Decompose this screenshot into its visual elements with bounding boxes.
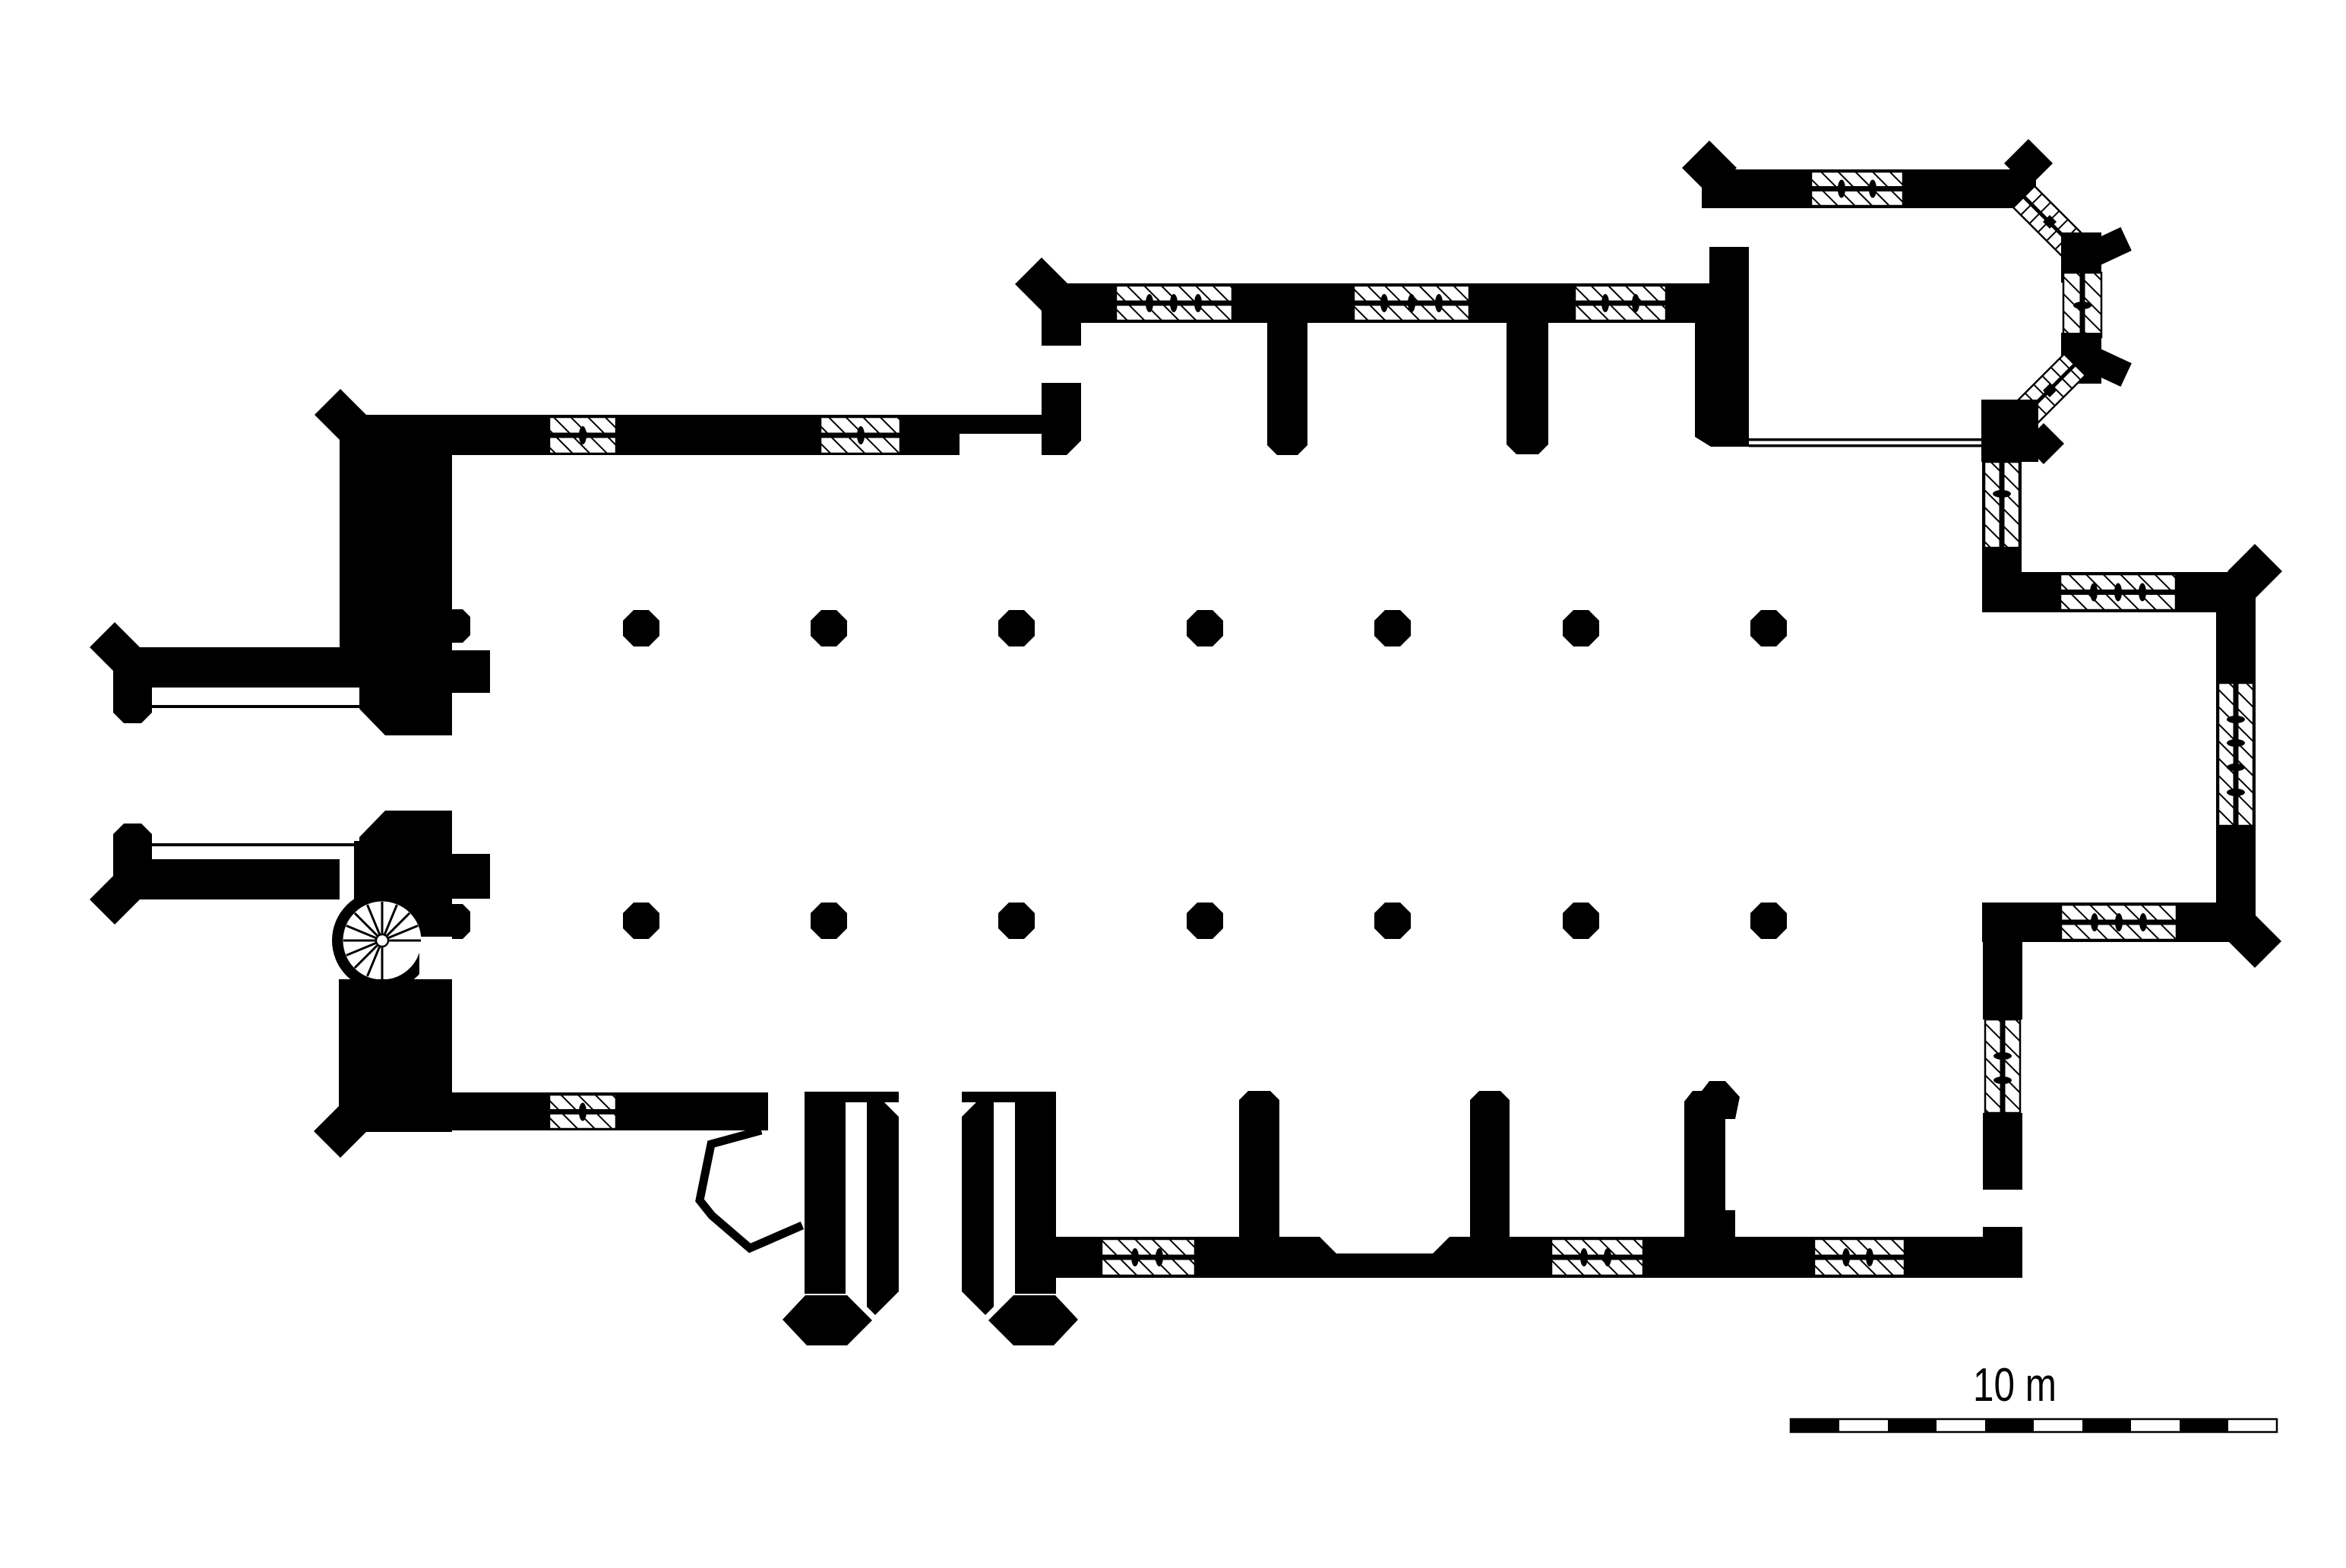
apse north buttress — [2004, 139, 2053, 188]
apse east-north buttress — [2086, 227, 2132, 267]
south chapel east window — [1985, 1020, 2020, 1113]
retrochoir south-east buttress — [2228, 915, 2281, 968]
nave south arcade pier 5 — [1374, 903, 1411, 939]
stair turret wall — [332, 890, 432, 991]
retrochoir east window — [2218, 683, 2253, 826]
south chapel east wall upper — [1983, 903, 2022, 1020]
chapel arch south jamb — [1042, 383, 1081, 455]
sanctuary north window — [1811, 172, 1903, 206]
west tower south block — [354, 841, 452, 904]
south chapel window 3 — [1814, 1239, 1905, 1276]
nave south arcade pier 2 — [811, 903, 847, 939]
south chapel east wall lower — [1983, 1113, 2022, 1190]
retrochoir north-east buttress — [2227, 544, 2282, 599]
nave south arcade pier 6 — [1563, 903, 1599, 939]
stair newel — [376, 934, 388, 947]
apse south block — [1981, 400, 2038, 462]
south porch east jamb lintel — [962, 1092, 1056, 1102]
nave south arcade pier 3 — [998, 903, 1035, 939]
stair treads — [343, 902, 421, 979]
north chapel window 2 — [1354, 286, 1469, 321]
nave north arcade pier 4 — [1187, 610, 1223, 646]
nave north arcade pier 6 — [1563, 610, 1599, 646]
north-west porch west turret — [113, 650, 152, 723]
nave south arcade pier 4 — [1187, 903, 1223, 939]
window in chancel east wall — [1984, 462, 2019, 548]
south nave wall — [452, 1092, 768, 1130]
north chapel north wall — [1047, 283, 1709, 323]
nave north arcade pier 7 — [1750, 610, 1787, 646]
tower west door south jamb — [359, 811, 452, 841]
chancel step line 1 — [1749, 438, 1981, 441]
north arcade respond — [452, 609, 470, 643]
window 2 in nave north wall — [820, 417, 900, 454]
south chapel wall recess — [1320, 1237, 1450, 1253]
south chapel window 2 — [1551, 1239, 1643, 1276]
south chapel south wall — [1056, 1237, 2022, 1278]
west tower north block — [340, 415, 452, 688]
tower south-west buttress — [314, 1105, 367, 1158]
south chapel south-east corner — [1983, 1227, 2022, 1278]
north-west porch threshold line — [152, 705, 372, 708]
chancel east wall — [1982, 462, 2022, 572]
south annex block — [452, 854, 490, 899]
chapel east block — [1695, 247, 1749, 447]
apse south-east window — [2013, 354, 2085, 426]
apse south buttress — [2023, 423, 2064, 464]
nave north wall thin section — [959, 415, 1044, 434]
apse east block north — [2061, 232, 2101, 283]
south porch west jamb lintel — [805, 1092, 899, 1102]
south porch west jamb inner shaft — [867, 1102, 899, 1279]
south porch east jamb inner shaft — [962, 1102, 994, 1279]
south porch funnel wall — [700, 1130, 802, 1248]
south porch east jamb inner foot — [962, 1279, 994, 1315]
south-west porch wall — [133, 859, 340, 899]
south chapel pier 1 — [1239, 1091, 1279, 1245]
sanctuary north-west buttress — [1682, 141, 1737, 195]
window in nave north wall — [549, 417, 616, 454]
nave north wall — [452, 415, 960, 455]
stair doorway — [419, 937, 452, 979]
chancel step line 2 — [1749, 444, 1981, 447]
south porch west jamb outer shaft — [805, 1092, 846, 1294]
tower north-west buttress — [315, 389, 366, 441]
south-west porch west turret — [113, 824, 152, 897]
retrochoir east wall — [2216, 572, 2256, 942]
north-west porch wall — [133, 647, 340, 688]
south porch east jamb outer shaft — [1015, 1092, 1056, 1294]
south-west porch threshold line — [152, 843, 372, 846]
nave south arcade pier 1 — [623, 903, 659, 939]
retrochoir north wall — [1982, 572, 2256, 612]
nave south arcade pier 7 — [1750, 903, 1787, 939]
svg-text:10 m: 10 m — [1973, 1359, 2057, 1412]
nave north arcade pier 1 — [623, 610, 659, 646]
nave north arcade pier 5 — [1374, 610, 1411, 646]
apse east-south buttress — [2086, 347, 2132, 387]
tower west door north jamb — [359, 688, 452, 735]
south-west porch buttress — [90, 874, 140, 925]
south porch east jamb foot — [988, 1295, 1078, 1345]
chapel west buttress — [1015, 258, 1068, 311]
apse east window — [2063, 273, 2101, 337]
south nave window — [549, 1095, 616, 1129]
nave north arcade pier 3 — [998, 610, 1035, 646]
retrochoir south window — [2061, 905, 2177, 940]
retrochoir south wall — [1982, 903, 2256, 942]
stair east wall — [391, 903, 452, 938]
north chapel window 1 — [1116, 286, 1232, 321]
north chapel pier 1 — [1267, 323, 1307, 455]
apse east block south — [2061, 333, 2101, 384]
retrochoir north window — [2060, 574, 2176, 610]
north annex block — [452, 650, 490, 693]
scale bar — [1791, 1419, 2277, 1432]
north chapel pier 2 — [1507, 321, 1548, 454]
south chapel window 1 — [1102, 1239, 1195, 1276]
west tower lower block — [339, 979, 452, 1132]
chapel arch north jamb — [1042, 303, 1081, 346]
south arcade respond — [452, 904, 470, 939]
north-west porch buttress — [90, 622, 140, 672]
apse north-east window — [2013, 186, 2085, 258]
south chapel pier 2 — [1470, 1091, 1510, 1245]
north chapel window 3 — [1575, 286, 1666, 321]
south porch west jamb foot — [783, 1295, 872, 1345]
south porch west jamb inner foot — [867, 1279, 899, 1315]
stair well — [343, 902, 422, 980]
south chapel pier 3 — [1684, 1081, 1740, 1237]
sanctuary north wall — [1702, 169, 2036, 208]
nave north arcade pier 2 — [811, 610, 847, 646]
